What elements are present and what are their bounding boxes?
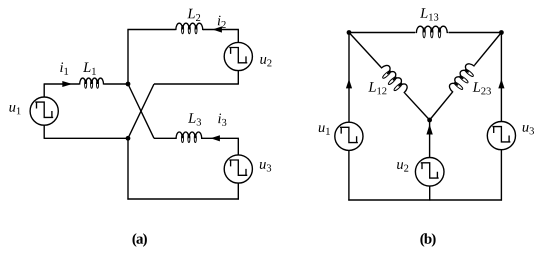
- i3 label: [218, 113, 226, 125]
- inductor L3: [175, 132, 203, 143]
- wire u2b up: [429, 120, 431, 158]
- inductor L12: [376, 63, 409, 98]
- wire top rail b left: [348, 32, 415, 34]
- arrow u2b: [426, 124, 432, 134]
- arrow u1b: [346, 79, 352, 88]
- wire bottom rail b: [348, 199, 502, 201]
- L1 label: [83, 63, 96, 75]
- wire node B down: [127, 138, 129, 199]
- diagonal TR-BN: [430, 93, 453, 120]
- L3 label: [188, 113, 201, 125]
- wire u3b down: [500, 150, 502, 201]
- u3b label: [523, 125, 534, 134]
- wire node A up: [127, 30, 129, 85]
- wire u1b down: [348, 150, 350, 200]
- wire L1 to node A: [104, 83, 128, 85]
- diagonal wire X2: [128, 84, 154, 138]
- i2 label: [218, 16, 226, 28]
- voltage source U1b: [335, 122, 363, 150]
- u3 label: [260, 162, 271, 171]
- L2 label: [187, 9, 200, 21]
- wire top rail b right: [449, 32, 502, 34]
- L12 label: [368, 82, 386, 94]
- wire L2 to u2: [203, 29, 239, 31]
- diagonal wire X1: [128, 84, 154, 138]
- L23 label: [473, 82, 491, 94]
- wire u3b up: [500, 33, 502, 122]
- u1 label: [9, 105, 20, 114]
- u2b label: [397, 162, 408, 171]
- arrow i2: [213, 26, 222, 32]
- wire u3 bottom: [237, 183, 239, 200]
- caption (b): [420, 233, 435, 247]
- arrow u3b: [498, 79, 504, 88]
- arrow i1: [62, 81, 72, 87]
- wire u1 bottom: [43, 125, 45, 138]
- voltage source U1: [30, 97, 58, 125]
- voltage source U3: [224, 155, 252, 183]
- arrow i3: [211, 135, 220, 141]
- wire bottom rail a: [127, 198, 238, 200]
- caption (a): [133, 233, 147, 247]
- inductor L1: [79, 78, 105, 88]
- inductor L2: [175, 23, 204, 34]
- wire L3 to u3: [202, 137, 239, 139]
- L13 label: [420, 8, 438, 20]
- node B: [126, 136, 131, 141]
- u1b label: [319, 125, 330, 134]
- i1 label: [60, 62, 68, 74]
- wire X to L3: [154, 137, 176, 139]
- inductor L13: [415, 26, 448, 38]
- wire u3 top: [237, 138, 239, 155]
- node bottom: [427, 118, 432, 123]
- inductor L23: [447, 61, 479, 97]
- wire u1b up: [348, 33, 350, 123]
- voltage source U2b: [415, 158, 444, 187]
- wire u2b down: [429, 186, 431, 201]
- u2 label: [260, 57, 271, 66]
- node top-left: [347, 30, 352, 35]
- wire u1 top: [43, 84, 45, 97]
- voltage source U3b: [487, 122, 515, 150]
- node A: [126, 82, 131, 87]
- voltage source U2: [224, 42, 252, 70]
- node top-right: [499, 30, 504, 35]
- diagonal TL-BN: [349, 33, 381, 68]
- wire u2 top: [237, 30, 239, 43]
- wire top left: [127, 29, 175, 31]
- wire u2 bottom: [237, 71, 239, 84]
